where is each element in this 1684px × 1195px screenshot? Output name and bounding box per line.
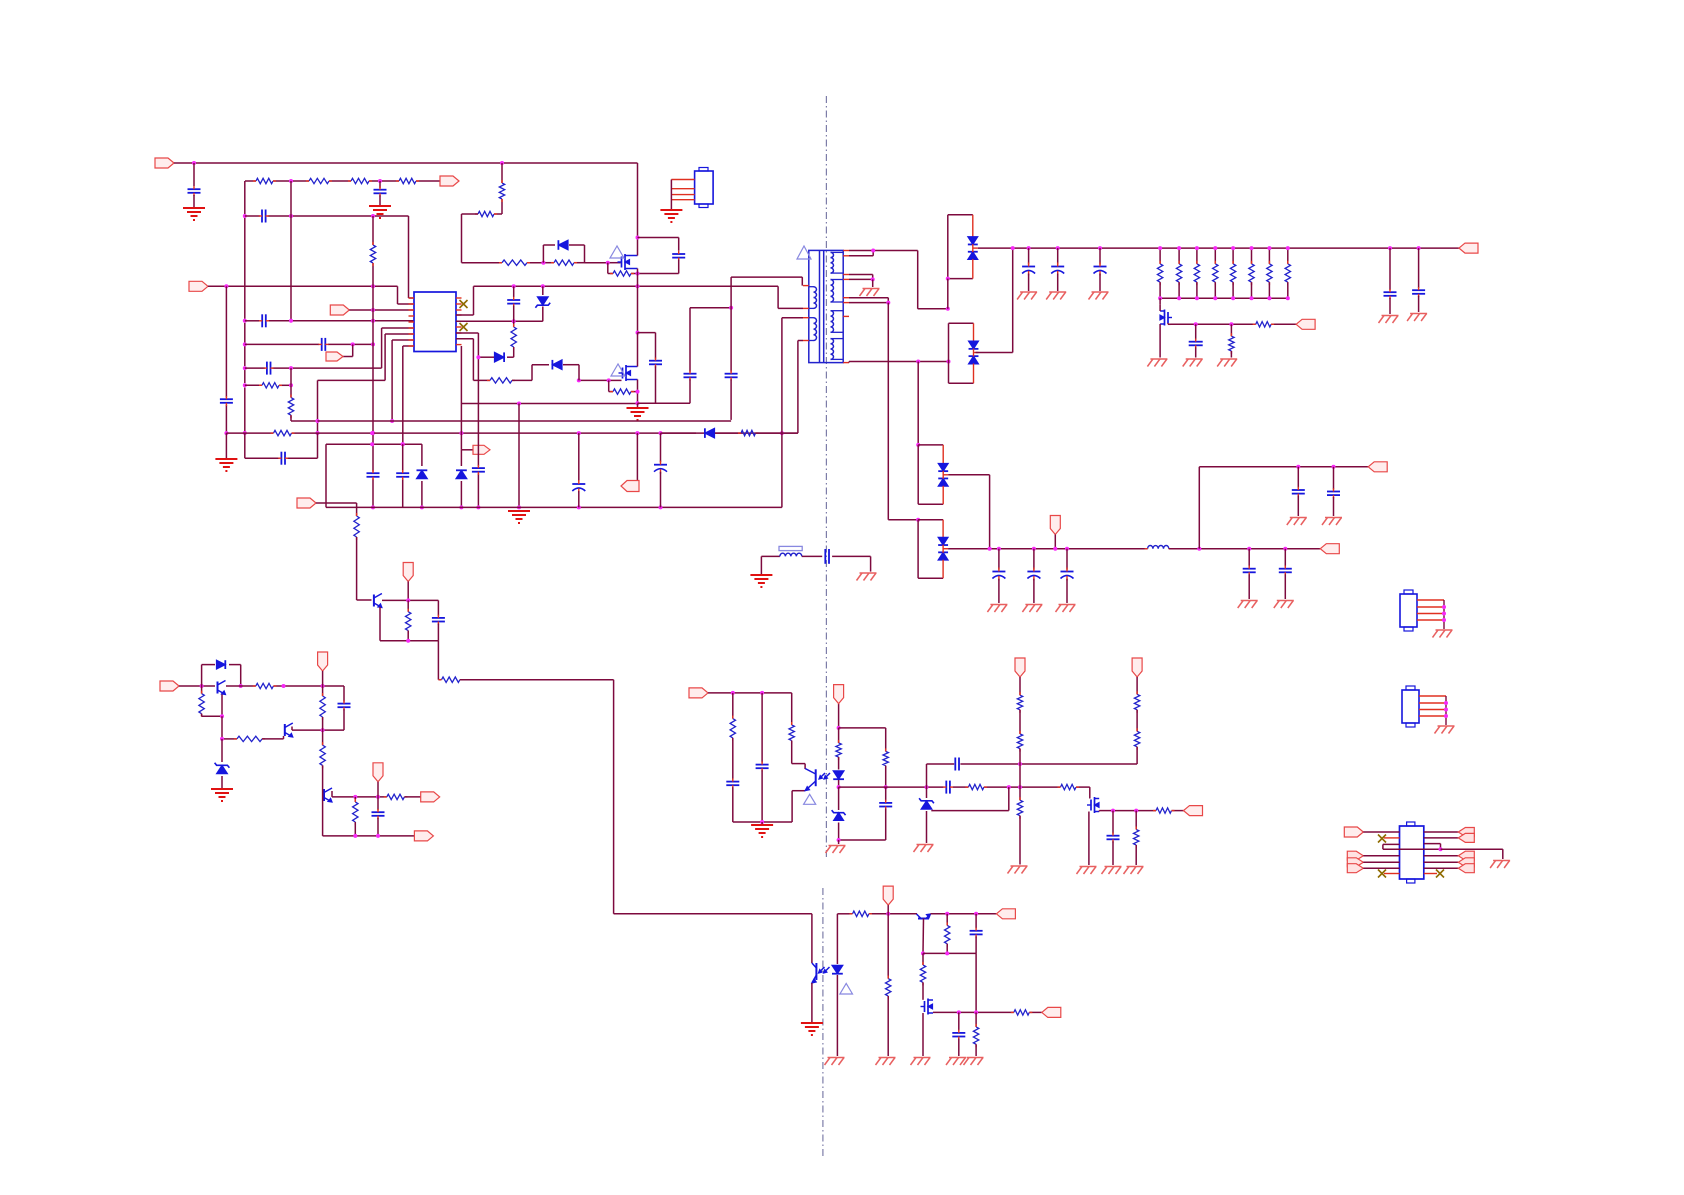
wire feedback row787 long (839, 786, 886, 788)
wire row y321 (245, 320, 260, 322)
capacitor C4 series y321 (261, 314, 263, 327)
wire J1 pin bus (670, 180, 672, 210)
node spine x245 (243, 214, 247, 218)
inductor L2 ferrite bead (780, 553, 802, 556)
ground chassis TL431 (917, 844, 934, 846)
capacitor C15 resonant (689, 308, 691, 372)
x-mark U4 pin2 (1384, 837, 1400, 839)
isolation barrier lower segment (822, 888, 824, 1158)
wire M2 source down (637, 380, 639, 392)
resistor R24 ref (237, 736, 262, 741)
node gate row (1194, 322, 1198, 326)
wire opto2 right row914 (837, 913, 852, 915)
capacitor C23 rail end (1388, 246, 1392, 250)
opto U3 light arrows (819, 967, 825, 973)
wire cap x402 leg (402, 444, 404, 471)
resistor R42 row914 (853, 911, 869, 916)
resistor R6 v291 (288, 398, 293, 416)
port U4 out1 (1458, 828, 1474, 837)
wire snubber1 bottom (638, 273, 679, 275)
node M1 source (636, 272, 640, 276)
node row y368 (289, 366, 293, 370)
wire M2 gate-source leg (608, 380, 610, 391)
capacitor C12 x513 upper (513, 286, 515, 297)
ground chassis J2 (1436, 629, 1453, 631)
node M2 source (636, 390, 640, 394)
capacitor C29 aux filter (1065, 547, 1069, 551)
node Q9 row (945, 912, 949, 916)
zener D14 opto (838, 787, 840, 810)
wire rail286 corner to pinAbot (777, 286, 779, 308)
transformer primary winding A (814, 287, 817, 309)
diode D1 x421 to bus (421, 444, 423, 466)
node on input rail (192, 161, 196, 165)
transistor Q6 (284, 724, 286, 736)
capacitor C35 x378 (377, 797, 379, 810)
wire v226 down (225, 286, 227, 397)
diode D7 rail433 (661, 432, 697, 434)
node row810 (1111, 809, 1115, 813)
port status out (421, 792, 440, 802)
node row797 (353, 795, 357, 799)
capacitor C8 spine x373 (367, 472, 380, 474)
wire Q7 emitter to bus (322, 789, 324, 801)
resistor R26 x322 lower (320, 745, 325, 765)
wire zener ground (838, 840, 840, 844)
resistor R9 x513 lower (513, 321, 515, 327)
wire aux winding top y317 (782, 317, 803, 319)
wire J2 pin bus (1443, 600, 1445, 629)
node spine x373 rail433 bus507 (371, 431, 375, 435)
opto U3 LED (832, 965, 843, 973)
node y262 (541, 261, 545, 265)
wire primary top link y277 (731, 276, 802, 278)
zener D6 TVS2 (552, 360, 562, 370)
capacitor C38 right loop (885, 787, 887, 801)
resistor R29 x732 (732, 693, 734, 719)
ground earth Y-cap left (760, 556, 762, 574)
node v226 rail433 (224, 431, 228, 435)
diode D10b (938, 478, 948, 486)
resistor R3 startup (351, 178, 369, 183)
resistor Rb6 bank (1251, 248, 1253, 264)
node rail549 right (1197, 547, 1201, 551)
node gate row380 (577, 378, 581, 382)
wire M1 source to rail286 (637, 269, 639, 274)
resistor Rb3 bank (1196, 248, 1198, 264)
capacitor C25 aux (1248, 549, 1250, 567)
resistor R19 feed (354, 516, 359, 537)
connector J3 pins (1419, 695, 1446, 697)
wire M1 gate-source resistor leg (607, 263, 609, 274)
port U4 in group (1347, 851, 1363, 860)
port opto1 bias (834, 685, 844, 704)
node emitter bus (406, 639, 410, 643)
wire rect4 out rail549 (948, 548, 1148, 550)
port AC-L input (155, 158, 174, 168)
capacitor C5 series y344 (321, 338, 323, 351)
capacitor C14 snubber2 (655, 333, 657, 359)
wire opto1 collector staircase (791, 741, 793, 764)
wire line y403 to mosfet ground node (461, 403, 519, 405)
resistor Rb5 bank (1232, 248, 1234, 264)
wire Q9 bottom row (923, 952, 976, 954)
resistor R23 Q5 base lower (201, 686, 203, 694)
wire to resistor (316, 502, 357, 504)
wire gate chain from IC (501, 163, 503, 183)
opto U2 light arrows (819, 773, 825, 779)
capacitor C22 gate (1195, 324, 1197, 339)
diode D2 x461 (460, 450, 462, 466)
capacitor C42 x976 (975, 914, 977, 929)
zener D13 reference (221, 739, 223, 762)
capacitor C18 x660 aux (660, 433, 662, 462)
capacitor C28 aux filter (1032, 547, 1036, 551)
wire S4 bottom pin to rect2 (848, 362, 850, 363)
transistor Q1 MOSFET upper (621, 257, 623, 268)
wire spine x245 (244, 181, 246, 214)
port CS input (330, 305, 349, 315)
isolation barrier (primary/secondary) upper segment (825, 96, 827, 858)
connector J2 body (1400, 594, 1417, 627)
port aux standby out (1042, 1007, 1061, 1017)
wire M2 drain stub (637, 333, 639, 367)
wire bus y421 (318, 420, 732, 422)
wire D8 center tap out (973, 247, 978, 249)
diode D11b (938, 552, 948, 560)
wire pin333 chain (385, 333, 414, 335)
wire pin345 chain (403, 345, 414, 347)
triangle marker opto1 (804, 794, 816, 804)
transistor Q4 series pass (373, 595, 375, 607)
x-mark NC pin right top (460, 300, 468, 308)
wire D11 center tap out (943, 548, 948, 550)
resistor R36 x1020 b (1019, 710, 1021, 734)
wire y680 to opto2 chain (460, 679, 614, 681)
capacitor C33 base (437, 600, 439, 615)
wire LED cathode ground (836, 975, 838, 1056)
wire row y310 (349, 309, 414, 311)
capacitor C3 series y216 (261, 210, 263, 223)
resistor R15 M2 source (613, 389, 631, 394)
node y403 (517, 402, 521, 406)
port bus out (414, 831, 433, 841)
port U4 out5 (1458, 864, 1474, 873)
capacitor C40 series y764 (954, 758, 956, 771)
resistor R47 x976 (975, 1012, 977, 1027)
resistor Rb8 bank (1287, 248, 1289, 264)
port feed down x378 (373, 763, 383, 782)
resistor R21 y680 (442, 677, 460, 682)
resistor R46 row1012 (1014, 1010, 1030, 1015)
resistor R28 x355 (354, 797, 356, 802)
op-amp U1 PWM controller IC (414, 292, 456, 352)
capacitor C19 bulk (1028, 248, 1030, 264)
wire M3 drain link (1159, 305, 1161, 311)
wire rect1 out to main rail (978, 247, 1459, 249)
wire gate row y380 (473, 379, 490, 381)
capacitor C34 x344 (343, 686, 345, 702)
resistor R27 row797 (387, 794, 405, 799)
wire aux vertical x781 (781, 318, 783, 508)
node row1012 (957, 1010, 961, 1014)
node line444 (370, 442, 374, 446)
diode pack D11 frame (917, 520, 919, 579)
wire bus y507 (326, 506, 782, 508)
wire Q4 right node (382, 599, 438, 601)
wire Y-cap to chassis (832, 555, 871, 557)
node M2 drain snubber (636, 331, 640, 335)
node Q9 col (921, 951, 925, 955)
node rect3 input (916, 443, 920, 447)
node opto1 rail (731, 691, 735, 695)
wire M5 source ground (922, 1013, 924, 1056)
ground earth opto2 (801, 1022, 823, 1024)
resistor R4 startup (399, 178, 416, 183)
transistor Q3 MOSFET dummy load (1167, 312, 1169, 323)
capacitor C10 x402 (396, 472, 409, 474)
resistor Rb4 bank (1214, 248, 1216, 264)
resistor R8 rail433 (274, 430, 292, 435)
diode D4 row357 (478, 356, 494, 358)
node rail y433 (370, 431, 374, 435)
ground earth opto1 (761, 822, 763, 824)
resistor R1 startup (256, 178, 273, 183)
ground chassis secondary center tap (863, 288, 880, 290)
ground earth v226 (215, 458, 237, 460)
wire D9 center tap out (974, 352, 979, 354)
diode pack D9 frame (948, 323, 950, 383)
resistor R25 x322 (322, 686, 324, 696)
capacitor C7 v226 (220, 398, 233, 400)
capacitor C37 x762 (761, 693, 763, 763)
transistor Q10 MOSFET (924, 1001, 926, 1012)
wire S1 pins tie (849, 250, 918, 252)
transistor Q7 (323, 789, 325, 801)
wire opto2 collector drop (811, 914, 813, 963)
wire TL431 vertical (926, 764, 928, 798)
wire bottom bus835 (323, 835, 416, 837)
x-mark NC pin right mid (460, 323, 468, 331)
wire riser to IC pin1 (408, 216, 410, 298)
resistor Rb1 bank (1159, 248, 1161, 264)
node caps bus (729, 306, 733, 310)
capacitor C17 x578 aux (578, 433, 580, 481)
capacitor input filter C1 (188, 188, 201, 190)
wire M3 source to ground (1159, 324, 1161, 358)
resistor R37 x1020 c (1019, 787, 1021, 800)
resistor R22 row686 (256, 683, 274, 688)
node row321 (512, 319, 516, 323)
zener D3 x542 (542, 286, 544, 295)
wire pin334 x385 to bus (384, 379, 386, 381)
wire TL431 ref loop (931, 810, 1009, 812)
wire M5 drain row1012 (933, 1011, 959, 1013)
wire row y286 left (208, 285, 398, 287)
resistor R2 startup (309, 178, 329, 183)
node rail286 (512, 284, 516, 288)
node row730 (321, 728, 325, 732)
x-mark U4 pin right (1424, 873, 1437, 875)
node bus y507 (577, 505, 581, 509)
node Q5 collector (239, 684, 243, 688)
diode D9a (973, 323, 975, 341)
wire to Q4 transistor (356, 537, 358, 600)
wire S1 route down to rect1 (917, 251, 919, 309)
wire M1 drain stub (637, 251, 639, 256)
x-mark U4 pin5 (1384, 873, 1400, 875)
wire diode loop (201, 665, 203, 686)
wire opto2 emitter ground (811, 983, 813, 1022)
wire to ground (193, 195, 195, 207)
wire x461 lower (460, 404, 462, 450)
resistor R41 x1136 (1135, 811, 1137, 830)
wire rect3 out (948, 474, 989, 476)
resistor R44 x947 (946, 914, 948, 926)
diode D8b (968, 252, 978, 260)
wire U4 left pins (1363, 855, 1399, 857)
wire opto1 bottom bus (733, 821, 792, 823)
ground chassis Y-cap right (860, 572, 877, 574)
wire x291 vertical (290, 181, 292, 216)
port +12V output (1459, 243, 1478, 253)
wire row y344 (245, 343, 319, 345)
resistor R48 gate2 (490, 378, 512, 383)
port VREF down (403, 563, 413, 582)
ground chassis U4 (1493, 860, 1510, 862)
ground chassis x1020 (1011, 865, 1028, 867)
wire opto1 emitter (792, 790, 805, 792)
wire pin315 riser to rail286 (456, 314, 474, 316)
wire row y368 (245, 367, 265, 369)
node row764 (1018, 762, 1022, 766)
transistor Q9 (918, 918, 929, 920)
diode D10a (942, 445, 944, 464)
resistor R32 right loop (883, 751, 888, 765)
wire pin321 row (456, 320, 543, 322)
opto U2 transistor side (815, 769, 817, 786)
wire to port (404, 796, 422, 798)
node main rail (1011, 246, 1015, 250)
capacitor C24 rail end2 (1417, 246, 1421, 250)
wire M3 gate row (1171, 323, 1196, 325)
triangle marker transformer (797, 246, 811, 259)
wire line y444 (326, 443, 422, 445)
wire riser x461 from IC (460, 346, 462, 404)
capacitor C27 aux filter (998, 549, 1000, 570)
wire x1020 chain (1019, 677, 1021, 695)
wire TL431 cathode row764 (927, 763, 955, 765)
port aux down x637 (636, 433, 638, 480)
diode D8a (972, 215, 974, 237)
wire S3 pins tie down to rect4 (849, 297, 888, 299)
ground earth C2 (369, 205, 391, 207)
diode D11a (942, 520, 944, 538)
diode D9b (969, 356, 979, 364)
wire rail433 cap loop (244, 433, 246, 458)
connector J3 body (1402, 690, 1419, 723)
wire ref row to Q6 (262, 738, 283, 740)
ground earth bus (508, 510, 530, 512)
wire loop bottom (839, 839, 886, 841)
wire U4 right pins group (1424, 855, 1459, 857)
port upper aux output (1368, 462, 1387, 472)
wire feedback row y216 (245, 215, 260, 217)
wire rail y433 (226, 432, 273, 434)
wire x1137 chain (1136, 677, 1138, 694)
wire Q9 collector (922, 919, 925, 954)
wire Q5 emitter (221, 695, 223, 717)
resistor R31 opto led (838, 728, 840, 743)
wire U4 pin1 (1363, 831, 1399, 833)
zener D15 TL431 (921, 801, 932, 809)
capacitor C41 x1113 (1112, 811, 1114, 834)
wire Q6 collector row (291, 727, 293, 731)
ground earth zener (211, 788, 233, 790)
port COMP via stub (352, 344, 354, 356)
triangle marker opto2 (840, 983, 853, 994)
wire resonant caps top bus (690, 307, 731, 309)
capacitor C13 snubber1 (678, 238, 680, 251)
ground earth M2 source (637, 403, 639, 407)
wire row y385 (245, 384, 262, 386)
ground earth J1 (660, 209, 682, 211)
wire TVS loop1 (542, 245, 544, 263)
diode D12 loop (217, 660, 226, 669)
node row y286 (224, 284, 228, 288)
node rail467 (1296, 465, 1300, 469)
port feed down x322 (318, 652, 328, 671)
wire M4 source ground (1088, 812, 1090, 866)
wire LED anode (836, 914, 838, 964)
transistor Q5 (217, 682, 219, 694)
IC U1 left pin stubs (409, 297, 415, 299)
wire Y-cap chain (761, 555, 780, 557)
wire snubber1 top (638, 237, 679, 239)
resistor R35 x1020 a (1017, 695, 1022, 710)
resistor R13 y262 inner (554, 260, 574, 265)
resistor R17 gate series (1256, 322, 1271, 327)
port opto1 supply (689, 688, 708, 698)
wire v291 to bus y421 (290, 415, 292, 421)
wire y214 corner (462, 213, 479, 215)
wire riser x519 (518, 404, 520, 508)
wire top input rail (174, 162, 638, 164)
wire rail549 inductor (1148, 546, 1169, 549)
node row y321 (289, 319, 293, 323)
node row914 (886, 912, 890, 916)
capacitor C2 on startup rail (379, 181, 381, 188)
node base (200, 684, 204, 688)
node ref row (220, 737, 224, 741)
resistor R18 gate pulldown (1230, 324, 1232, 336)
wire pin339 riser to gate row (456, 338, 473, 340)
transistor Q8 MOSFET small (1090, 800, 1092, 811)
wire to Q5 (179, 685, 215, 687)
wire U4 pin3 under-loop (1383, 843, 1400, 845)
resistor R45 x923 (922, 953, 924, 965)
node feedback row787 (837, 785, 841, 789)
resistor R11 y214 (478, 211, 494, 216)
node S4 line (916, 360, 920, 364)
connector J1 pins (671, 179, 694, 181)
transistor Q2 MOSFET lower (622, 368, 624, 379)
wire snubber2 top (638, 332, 656, 334)
transformer T1 core and frame (809, 250, 843, 362)
capacitor C20 bulk (1057, 248, 1059, 264)
triangle warning marker M1 (610, 246, 624, 258)
wire upper aux rail y467 (1199, 466, 1373, 468)
